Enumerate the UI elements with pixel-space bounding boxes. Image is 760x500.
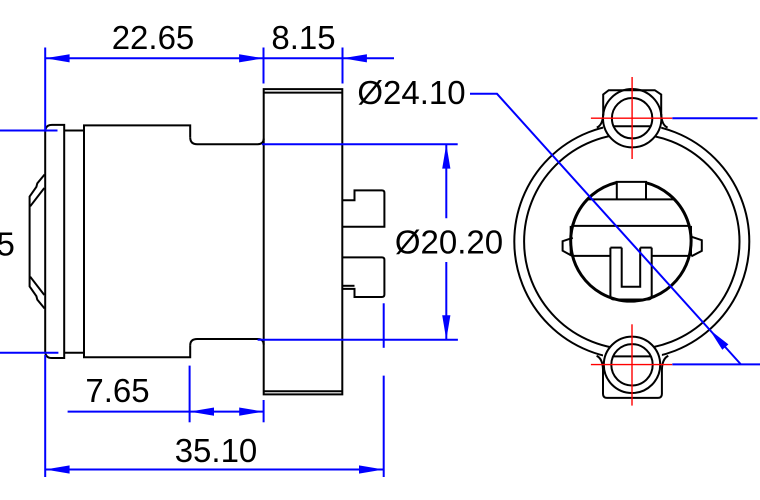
extension line at x=45.2 top (44, 48, 46, 132)
plug lower chord (broken at keyway) (573, 255, 690, 257)
U keyway inner slot (622, 248, 641, 287)
left cut dimension extension bottom (0, 352, 58, 354)
dimension texts (0, 19, 503, 469)
arrow 22.65 left (45, 54, 69, 62)
extension line at x=342.5 top (342, 48, 344, 84)
left tab (563, 238, 573, 256)
7.65 dimension line (68, 411, 264, 413)
rear disc (side view) (264, 89, 343, 394)
dia 24.10 leader (470, 94, 741, 365)
main body (side view) (84, 125, 190, 357)
left cut dimension extension top (0, 130, 58, 132)
top ear outline (603, 90, 661, 115)
central plug circle (571, 183, 691, 302)
front flange (side view) (45, 125, 64, 358)
groove (side view) (64, 131, 84, 353)
plug upper chord (587, 198, 674, 200)
svg-text:5: 5 (0, 225, 15, 262)
arrow 8.15 right (343, 54, 367, 62)
arrow leader 24.10 (710, 330, 729, 350)
U keyway leg tops (610, 247, 651, 249)
35.10 extension line right upper (383, 303, 385, 348)
FRONT VIEW (514, 89, 749, 398)
bottom hole center mark vertical (631, 324, 633, 405)
plug band left edge (570, 226, 572, 256)
bottom mounting hole (611, 344, 652, 385)
7.65 extension line right (263, 400, 265, 422)
top hole extension line (672, 117, 757, 119)
arrow 35.10 right (359, 465, 383, 473)
bottom ear left fillet (597, 356, 603, 370)
bottom ear outline (603, 369, 662, 398)
dia 20.20 dimension line upper (445, 144, 447, 218)
top ear right fillet (661, 114, 667, 128)
arrowheads (45, 54, 728, 473)
outer body circle (514, 124, 749, 359)
plug top flat key (617, 182, 646, 200)
plug front face (side view, leftmost chamfered knob) (30, 175, 45, 309)
svg-text:8.15: 8.15 (271, 19, 335, 56)
bottom ear boss circle (604, 337, 660, 393)
35.10 dimension line (45, 469, 383, 471)
arrow 22.65/8.15 shared (239, 54, 263, 62)
center marks (red) (591, 77, 672, 406)
lower terminal knob (side view) (342, 257, 385, 297)
svg-text:35.10: 35.10 (175, 432, 258, 469)
plug mid chord (573, 225, 690, 227)
svg-text:7.65: 7.65 (85, 372, 149, 409)
arrow 7.65 right (239, 408, 263, 416)
bottom hole center mark horizontal (591, 364, 672, 366)
bottom hole chord (613, 355, 651, 357)
top ear mask (603, 89, 661, 147)
neck (side view) (190, 137, 264, 345)
35.10 extension line right lower (383, 376, 385, 477)
arrow 20.20 up (442, 144, 450, 168)
extension line at x=263.5 top (263, 48, 265, 84)
dia 20.20 dimension line lower (445, 262, 447, 340)
svg-text:Ø20.20: Ø20.20 (395, 224, 503, 261)
arrow 20.20 down (442, 315, 450, 339)
top ear boss circle (603, 89, 661, 147)
top hole center mark horizontal (591, 117, 672, 119)
top hole chord (614, 125, 651, 127)
inner rim circle (524, 134, 739, 349)
plug band right edge (690, 226, 692, 256)
right tab (691, 237, 702, 257)
top mounting hole (612, 98, 652, 138)
7.65 extension line left (189, 366, 191, 423)
top ear left fillet (597, 114, 603, 128)
bottom ear mask (603, 337, 662, 398)
bottom hole extension line (672, 363, 760, 365)
bottom ear right fillet (662, 356, 668, 370)
arrow 7.65 left (190, 408, 214, 416)
U keyway outer (610, 248, 651, 300)
upper terminal knob (side view) (342, 190, 385, 226)
top dimension line 22.65 / 8.15 (45, 57, 394, 59)
neck bottom extension line (258, 339, 458, 341)
svg-text:Ø24.10: Ø24.10 (357, 74, 465, 111)
top hole center mark vertical (631, 77, 633, 159)
svg-text:22.65: 22.65 (112, 19, 195, 56)
extension line at x=45.2 bottom (44, 355, 46, 477)
neck top extension line (262, 143, 458, 145)
arrow 35.10 left (45, 465, 69, 473)
